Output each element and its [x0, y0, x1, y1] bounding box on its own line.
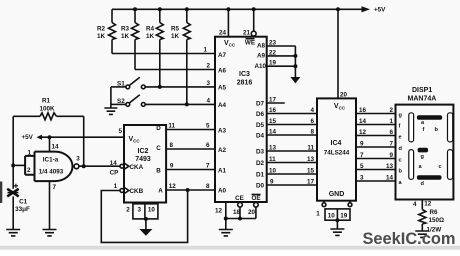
svg-text:14: 14: [269, 129, 277, 136]
IC2 bottom pins 2,3,10: [126, 204, 158, 229]
segment d: [417, 175, 442, 180]
svg-text:150Ω: 150Ω: [429, 217, 445, 224]
ground (IC2, arrow style): [139, 229, 152, 236]
svg-text:A0: A0: [218, 188, 227, 195]
svg-text:7: 7: [360, 152, 364, 159]
svg-text:D6: D6: [256, 111, 265, 118]
svg-text:A6: A6: [218, 68, 227, 75]
svg-text:a: a: [421, 120, 425, 126]
segment b: [448, 113, 453, 142]
wire gate output to CKA: [79, 164, 120, 168]
svg-text:17: 17: [269, 97, 277, 104]
svg-text:23: 23: [269, 40, 277, 47]
svg-text:a: a: [399, 180, 403, 186]
wire IC4 pin 20 Vcc: [338, 9, 348, 98]
+5V arrow to IC1 pin14 / IC2 pin 5: [22, 128, 125, 152]
svg-text:g: g: [399, 113, 403, 119]
svg-text:IC4: IC4: [331, 140, 342, 147]
svg-text:2816: 2816: [237, 80, 253, 87]
op-amp IC1-a NAND gate 1/4 4093: [13, 150, 80, 182]
wire D3 (pin 13 to IC4 pin 11): [267, 145, 317, 152]
wire D6 (pin 16 to IC4 pin 4): [267, 107, 317, 114]
wire IC4 7 to DISP c(9): [356, 152, 396, 159]
resistor R3 1K: [121, 9, 139, 69]
svg-text:1: 1: [203, 47, 207, 54]
svg-text:5: 5: [206, 123, 210, 130]
ground (C1): [6, 230, 20, 236]
svg-text:b: b: [435, 127, 439, 133]
wire A10 (pin 19): [267, 60, 298, 69]
svg-text:7: 7: [53, 184, 57, 191]
svg-text:1: 1: [316, 211, 320, 218]
svg-text:f: f: [399, 124, 401, 130]
wire IC4 9 to DISP d(7): [356, 141, 396, 148]
wire left column (R1 to C1): [11, 116, 15, 189]
svg-text:2: 2: [206, 63, 210, 70]
wire IC4 12 to DISP e(6): [356, 129, 396, 136]
display DISP1 MAN74A box: [396, 87, 454, 200]
svg-text:D2: D2: [256, 160, 265, 167]
svg-text:2: 2: [389, 107, 393, 114]
svg-text:c: c: [439, 164, 442, 170]
svg-text:VCC: VCC: [224, 40, 236, 48]
svg-text:2: 2: [126, 206, 130, 213]
svg-text:R3: R3: [121, 26, 130, 33]
svg-text:8: 8: [310, 129, 314, 136]
svg-text:S2: S2: [117, 98, 125, 105]
svg-text:14: 14: [110, 160, 118, 167]
wire IC4 14 to DISP f(1): [356, 118, 396, 125]
wire CKA labels: [110, 160, 119, 190]
capacitor C1 33uF: [7, 184, 30, 230]
svg-text:A3: A3: [218, 128, 227, 135]
wire IC4 3 to DISP a(14): [356, 175, 396, 182]
IC4 bottom pins 1,10,19: [316, 201, 352, 229]
IC3 bottom pins 12, CE(18), OE(20): [215, 202, 258, 230]
ground (R6): [415, 231, 429, 237]
ground (IC3): [219, 230, 233, 236]
svg-text:1/4 4093: 1/4 4093: [39, 169, 64, 176]
svg-text:IC2: IC2: [138, 148, 149, 155]
svg-text:9: 9: [270, 179, 274, 186]
svg-text:3: 3: [206, 80, 210, 87]
svg-text:D7: D7: [256, 100, 265, 107]
svg-text:A8: A8: [257, 43, 266, 50]
svg-text:D5: D5: [256, 122, 265, 129]
svg-text:11: 11: [168, 123, 175, 130]
svg-text:1: 1: [28, 150, 32, 157]
wire D2 (pin 11 to IC4 pin 13): [267, 156, 317, 163]
svg-text:D: D: [156, 125, 161, 132]
svg-text:19: 19: [340, 212, 348, 219]
svg-text:+5V: +5V: [22, 134, 34, 141]
svg-text:5: 5: [360, 163, 364, 170]
DISP pins 4 and 12, resistor R6: [413, 200, 444, 234]
svg-text:b: b: [399, 169, 403, 175]
wire D5 (pin 15 to IC4 pin 6): [267, 118, 317, 125]
svg-text:1K: 1K: [97, 33, 106, 40]
svg-text:16: 16: [269, 107, 277, 114]
svg-text:15: 15: [269, 118, 277, 125]
svg-text:IC1-a: IC1-a: [43, 157, 59, 164]
svg-text:C: C: [156, 145, 161, 152]
segment c: [448, 150, 453, 180]
op IC3 2816 box: [215, 37, 267, 202]
svg-text:g: g: [421, 154, 425, 160]
svg-text:8: 8: [169, 142, 173, 149]
svg-text:1K: 1K: [171, 33, 180, 40]
svg-text:13: 13: [386, 163, 394, 170]
svg-text:17: 17: [307, 179, 315, 186]
svg-text:3: 3: [137, 207, 141, 214]
svg-text:12: 12: [359, 129, 367, 136]
wire D7 stub (pin 17): [267, 97, 285, 104]
svg-text:R2: R2: [97, 26, 106, 33]
svg-text:CKB: CKB: [130, 188, 144, 195]
svg-text:R6: R6: [430, 209, 439, 216]
svg-text:2: 2: [27, 167, 31, 174]
svg-text:12: 12: [169, 183, 177, 190]
svg-text:21: 21: [243, 30, 251, 37]
svg-text:+5V: +5V: [374, 7, 386, 14]
svg-text:SeekIC.com: SeekIC.com: [363, 230, 456, 248]
wire D0 (pin 9 to IC4 pin 17): [267, 179, 317, 186]
svg-text:R5: R5: [171, 26, 180, 33]
svg-text:f: f: [423, 127, 425, 133]
IC4 74LS244 box: [317, 98, 356, 200]
svg-text:MAN74A: MAN74A: [408, 96, 437, 103]
svg-text:D0: D0: [256, 182, 265, 189]
wire A7 row (pin 1): [112, 47, 215, 54]
svg-text:5: 5: [118, 128, 122, 135]
wire IC2 A(12) to IC3 A0(8): [166, 183, 215, 192]
wire A6 row (pin 2): [135, 63, 215, 70]
svg-text:c: c: [399, 158, 402, 164]
svg-text:D4: D4: [256, 132, 265, 139]
wire D1 (pin 10 to IC4 pin 15): [267, 168, 317, 175]
wire IC2 B(9) to IC3 A1(7): [166, 163, 215, 170]
svg-text:24: 24: [219, 30, 227, 37]
svg-text:A9: A9: [257, 52, 266, 59]
svg-text:6: 6: [310, 118, 314, 125]
svg-text:A1: A1: [218, 168, 227, 175]
wire IC1 pin 7 to ground: [50, 181, 57, 229]
svg-text:3: 3: [76, 155, 80, 162]
svg-text:10: 10: [328, 212, 336, 219]
svg-text:14: 14: [386, 175, 394, 182]
wire IC2 C(8) to IC3 A2(6): [166, 142, 215, 149]
svg-text:33μF: 33μF: [15, 206, 30, 213]
svg-text:A7: A7: [218, 52, 227, 59]
resistor R2 1K: [97, 9, 116, 53]
ground (S1/S2): [104, 108, 117, 114]
svg-text:20: 20: [340, 92, 348, 99]
segment g: [418, 148, 429, 153]
ground (IC4): [330, 229, 344, 235]
svg-text:DISP1: DISP1: [412, 87, 432, 94]
svg-text:13: 13: [269, 145, 277, 152]
segment letters: [419, 120, 442, 187]
svg-text:11: 11: [269, 156, 276, 163]
svg-text:12: 12: [215, 208, 223, 215]
IC2 7493 box: [120, 125, 166, 203]
svg-text:1: 1: [389, 118, 393, 125]
svg-text:CKA: CKA: [130, 164, 144, 171]
svg-text:6: 6: [206, 142, 210, 149]
wire D4 (pin 14 to IC4 pin 8): [267, 129, 317, 136]
wire A8 (pin 23): [267, 40, 296, 47]
ground (A8-A10 bus): [290, 46, 300, 83]
svg-text:A: A: [158, 188, 163, 195]
svg-text:13: 13: [307, 156, 315, 163]
svg-text:7: 7: [389, 141, 393, 148]
svg-text:18: 18: [233, 209, 241, 216]
svg-text:CE: CE: [235, 195, 244, 202]
resistor R1 100K: [13, 98, 84, 120]
+5V supply rail: [112, 6, 386, 13]
wire IC4 5 to DISP b(13): [356, 163, 396, 170]
svg-text:7493: 7493: [135, 156, 151, 163]
svg-text:R1: R1: [42, 98, 51, 105]
wire feedback column (R1 to gate output): [83, 116, 85, 166]
svg-text:3: 3: [360, 175, 364, 182]
svg-text:7: 7: [206, 163, 210, 170]
pin 24 Vcc stub: [219, 9, 228, 36]
svg-text:11: 11: [307, 145, 314, 152]
svg-text:VCC: VCC: [334, 103, 346, 111]
wire IC2 D(11) to IC3 A3(5): [166, 123, 215, 130]
svg-text:8: 8: [206, 183, 210, 190]
svg-text:CP: CP: [110, 169, 119, 176]
segment e: [409, 150, 414, 180]
svg-text:S1: S1: [117, 81, 125, 88]
svg-text:74LS244: 74LS244: [324, 150, 350, 157]
wire feedback loop A(12) to CKB(1): [101, 190, 187, 242]
wire A9 (pin 22): [267, 49, 298, 58]
svg-text:1K: 1K: [146, 33, 155, 40]
svg-text:WE: WE: [245, 40, 255, 47]
svg-text:4: 4: [206, 97, 210, 104]
svg-text:D1: D1: [256, 171, 265, 178]
svg-text:19: 19: [269, 60, 277, 67]
svg-text:d: d: [399, 146, 403, 152]
svg-text:6: 6: [389, 129, 393, 136]
wire A5 row (pin 3): [145, 80, 215, 89]
7-segment digit: segment a: [417, 115, 442, 120]
svg-text:9: 9: [360, 141, 364, 148]
svg-text:A5: A5: [218, 85, 227, 92]
svg-text:e: e: [399, 135, 402, 141]
resistor R5 1K: [171, 9, 190, 104]
wire IC4 16 to DISP g(2): [356, 107, 396, 114]
svg-text:16: 16: [359, 107, 367, 114]
svg-text:A10: A10: [254, 63, 266, 70]
svg-text:15: 15: [307, 168, 315, 175]
svg-text:A4: A4: [218, 102, 227, 109]
resistor R4 1K: [146, 9, 163, 87]
svg-text:OE: OE: [251, 195, 260, 202]
svg-text:100K: 100K: [39, 106, 55, 113]
scan artifacts: [0, 246, 460, 250]
svg-text:IC3: IC3: [239, 71, 250, 78]
svg-text:12: 12: [424, 201, 432, 208]
segment f: [409, 113, 414, 142]
svg-text:10: 10: [269, 168, 277, 175]
svg-text:A2: A2: [218, 147, 227, 154]
svg-text:20: 20: [248, 209, 256, 216]
wire A4 row (pin 4): [145, 97, 215, 106]
svg-text:D3: D3: [256, 148, 265, 155]
switch S1: [111, 77, 145, 89]
svg-text:a: a: [419, 164, 423, 170]
svg-text:10: 10: [148, 207, 156, 214]
svg-text:1: 1: [114, 183, 118, 190]
svg-text:VCC: VCC: [129, 136, 141, 144]
svg-text:1K: 1K: [121, 33, 130, 40]
svg-text:9: 9: [170, 163, 174, 170]
pin 21 WE stub: [243, 9, 256, 36]
svg-text:9: 9: [389, 152, 393, 159]
svg-text:C1: C1: [19, 199, 28, 206]
svg-text:4: 4: [413, 201, 417, 208]
wire switch common: [110, 87, 112, 108]
svg-text:14: 14: [52, 144, 60, 151]
svg-text:GND: GND: [329, 191, 345, 198]
svg-text:14: 14: [359, 118, 367, 125]
svg-text:4: 4: [310, 107, 314, 114]
svg-text:R4: R4: [146, 26, 155, 33]
svg-text:d: d: [421, 181, 425, 187]
ground (IC1 pin7): [43, 230, 57, 236]
switch S2: [111, 95, 145, 107]
svg-text:B: B: [156, 168, 161, 175]
svg-text:22: 22: [269, 49, 277, 56]
